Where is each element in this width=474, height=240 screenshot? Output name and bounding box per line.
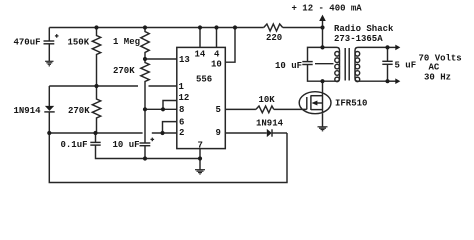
svg-text:220: 220 <box>266 33 282 43</box>
resistor R 150K <box>92 28 100 87</box>
resistor R 270K upper <box>141 59 149 109</box>
resistor R 270K lower <box>92 86 100 133</box>
node left loop / pin2 wire <box>47 131 51 135</box>
wire pin1 left segment (to 150K node and diode corner) <box>49 85 138 87</box>
wire output top with arrow <box>388 46 396 48</box>
node 270K / pin8 <box>143 107 147 111</box>
svg-text:5 uF: 5 uF <box>395 61 417 71</box>
node pin10 rail <box>233 25 237 29</box>
wire pin2 right segment <box>152 132 177 134</box>
IC U 556 outline <box>177 47 226 148</box>
wire feedback loop (right down, bottom, left up) <box>49 133 287 183</box>
ground (pin 7) <box>195 169 205 171</box>
svg-text:0.1uF: 0.1uF <box>61 140 88 150</box>
wire pin10 jog to rail <box>225 28 235 63</box>
node 1Meg top <box>143 25 147 29</box>
svg-text:150K: 150K <box>68 38 90 48</box>
node pin6 / pin2 <box>160 131 164 135</box>
node 5uF top <box>385 45 389 49</box>
svg-text:7: 7 <box>198 141 203 151</box>
svg-text:470uF: 470uF <box>14 38 41 48</box>
wire pin7 to ground <box>199 149 201 170</box>
node 5uF bottom <box>385 79 389 83</box>
transformer T1 core <box>344 48 346 81</box>
wire output bottom with arrow <box>388 80 396 82</box>
node pin14 rail <box>198 25 202 29</box>
svg-text:14: 14 <box>195 50 206 60</box>
svg-text:13: 13 <box>179 55 190 65</box>
svg-text:70 Volts: 70 Volts <box>419 54 462 64</box>
wire pin1 right segment <box>149 85 177 87</box>
wire pin8 <box>145 108 177 110</box>
node 0.1uF top <box>93 131 97 135</box>
wire pin13 to 1Meg/270K node <box>145 58 177 60</box>
resistor R 10K <box>256 106 274 113</box>
svg-text:Radio Shack: Radio Shack <box>334 24 394 34</box>
svg-text:30 Hz: 30 Hz <box>424 73 451 83</box>
wire pin9 to diode <box>225 132 266 134</box>
svg-text:270K: 270K <box>68 106 90 116</box>
svg-text:270K: 270K <box>113 66 135 76</box>
capacitor C 10uF (timing, polarized) <box>144 109 146 143</box>
svg-text:1N914: 1N914 <box>256 119 284 129</box>
wire pin4 to rail <box>216 28 218 48</box>
node 1Meg bottom / pin13 <box>143 57 147 61</box>
wire +12 rail down to transformer <box>322 28 324 48</box>
node pin12 / pin8 <box>161 107 165 111</box>
svg-text:5: 5 <box>216 105 221 115</box>
transformer T1 primary winding <box>323 47 340 81</box>
node 150K bottom / pin1 <box>94 84 98 88</box>
power +12V arrow <box>322 20 324 28</box>
resistor R 220 (in rail) <box>264 24 283 31</box>
node 10uF bottom <box>143 156 147 160</box>
svg-text:1N914: 1N914 <box>14 106 42 116</box>
svg-text:10: 10 <box>211 60 222 70</box>
node pin4 rail <box>214 25 218 29</box>
svg-text:6: 6 <box>179 118 184 128</box>
capacitor C 470uF <box>48 28 50 42</box>
svg-text:4: 4 <box>214 50 220 60</box>
svg-text:9: 9 <box>216 128 221 138</box>
svg-text:10K: 10K <box>259 95 276 105</box>
diode D 1N914 (pin 9, horizontal) <box>267 129 272 137</box>
wire source to ground <box>322 114 324 127</box>
svg-text:8: 8 <box>179 105 184 115</box>
svg-text:10 uF: 10 uF <box>275 61 302 71</box>
transformer T1 secondary winding <box>355 47 388 81</box>
wire caps bottom to pin7 <box>96 145 201 158</box>
ground (below 470uF) <box>48 44 50 61</box>
svg-text:12: 12 <box>179 93 190 103</box>
capacitor C 10uF (primary snubber) with loop <box>308 47 323 61</box>
wire pin12 jog <box>163 101 177 110</box>
wire pin14 to rail <box>199 28 201 48</box>
wire 10K to gate <box>274 108 307 110</box>
svg-text:1: 1 <box>179 82 185 92</box>
svg-text:IFR510: IFR510 <box>335 99 367 109</box>
svg-text:10 uF: 10 uF <box>113 140 140 150</box>
transistor Q IFR510 (MOSFET) <box>299 92 331 114</box>
wire top +12V rail <box>49 27 263 29</box>
svg-text:273-1365A: 273-1365A <box>334 34 383 44</box>
wire diode to right loop corner <box>272 132 287 134</box>
svg-text:1 Meg: 1 Meg <box>113 37 140 47</box>
resistor R 1 Meg <box>141 28 149 60</box>
svg-text:AC: AC <box>429 63 440 73</box>
wire pin5 to 10K <box>225 108 256 110</box>
node pin7 / caps bottom <box>198 156 202 160</box>
node transformer primary top <box>320 45 324 49</box>
wire pin6 jog <box>163 122 177 133</box>
node +12 rail end <box>320 25 324 29</box>
capacitor C 0.1uF <box>95 133 97 142</box>
svg-text:556: 556 <box>196 75 212 85</box>
wire rail right of 220 <box>283 27 323 29</box>
wire primary center tap stub <box>315 63 334 65</box>
wire MOSFET drain/source vertical <box>322 81 324 114</box>
wire pin2 left segment (to 0.1uF and left loop) <box>49 132 142 134</box>
capacitor C 5uF <box>387 47 389 61</box>
node 150K top <box>94 25 98 29</box>
diode D 1N914 left (vertical) <box>48 86 50 106</box>
ground (MOSFET source) <box>318 126 328 128</box>
svg-text:2: 2 <box>179 128 184 138</box>
node transformer primary bottom / drain <box>320 79 324 83</box>
svg-text:+ 12 - 400 mA: + 12 - 400 mA <box>292 4 363 14</box>
